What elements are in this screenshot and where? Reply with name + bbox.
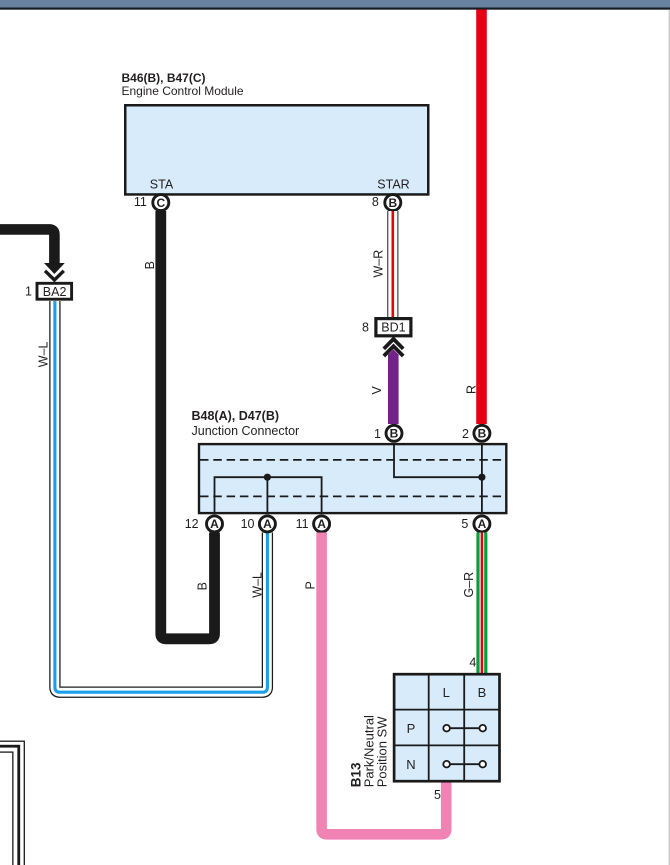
svg-text:C: C bbox=[156, 196, 165, 210]
junction pin 10 (A) bottom bbox=[259, 516, 275, 532]
svg-text:Junction Connector: Junction Connector bbox=[192, 424, 300, 438]
junction pin 1 (B) top bbox=[386, 425, 402, 441]
svg-text:B: B bbox=[196, 582, 210, 590]
N row contact bbox=[450, 763, 480, 765]
P row contact bbox=[450, 727, 480, 729]
svg-text:L: L bbox=[443, 685, 450, 700]
svg-text:B: B bbox=[143, 261, 157, 269]
junction connector box B48(A)/D47(B) bbox=[199, 444, 506, 513]
svg-text:A: A bbox=[210, 517, 219, 531]
ECM pin 8 (B) bbox=[385, 195, 401, 211]
junction pin 12 (A) bottom bbox=[207, 516, 223, 532]
wire V (violet) from chevrons down to junction pin 1B bbox=[388, 349, 399, 424]
chevron into BA2 bbox=[45, 271, 64, 280]
svg-text:B: B bbox=[390, 427, 399, 441]
internal bus right (pins 1B-2B-5A) bbox=[394, 445, 482, 513]
svg-text:B48(A), D47(B): B48(A), D47(B) bbox=[192, 409, 280, 423]
dashed separator upper bbox=[200, 459, 506, 461]
top header bar bbox=[0, 0, 670, 8]
svg-text:B: B bbox=[478, 685, 487, 700]
svg-text:11: 11 bbox=[296, 517, 309, 531]
partial connector box bottom-left (inner line) bbox=[0, 752, 13, 865]
svg-text:V: V bbox=[370, 386, 384, 395]
svg-text:P: P bbox=[407, 721, 416, 736]
svg-text:BD1: BD1 bbox=[381, 321, 405, 335]
switch grid vertical lines bbox=[429, 674, 465, 781]
svg-text:A: A bbox=[317, 517, 326, 531]
ECM pin 11 (C) bbox=[153, 195, 169, 211]
svg-text:1: 1 bbox=[25, 284, 32, 298]
continuation chevrons (pointing up at BD1) bbox=[384, 339, 403, 349]
partial connector box bottom-left (thick middle line) bbox=[0, 746, 19, 865]
svg-text:4: 4 bbox=[469, 656, 476, 670]
svg-text:B: B bbox=[388, 196, 397, 210]
svg-text:STA: STA bbox=[150, 178, 174, 192]
svg-text:W–L: W–L bbox=[37, 342, 51, 368]
wire W-R from ECM pin 8B down to BD1 bbox=[387, 211, 398, 318]
connector BD1 bbox=[376, 319, 411, 336]
svg-text:11: 11 bbox=[134, 195, 147, 209]
arrowhead into BA2 bbox=[44, 263, 65, 274]
wire B (thick black) from ECM pin C down, across, up to junction pin 12A bbox=[161, 211, 215, 639]
svg-text:W–R: W–R bbox=[372, 250, 386, 278]
svg-text:5: 5 bbox=[461, 517, 468, 531]
svg-text:STAR: STAR bbox=[377, 178, 409, 192]
wire P (pink) from junction pin 11A down, across, up into P/N switch bbox=[322, 533, 447, 835]
svg-text:P: P bbox=[303, 581, 317, 589]
switch grid horizontal lines bbox=[394, 710, 500, 746]
right page edge line bbox=[669, 10, 670, 865]
svg-text:5: 5 bbox=[434, 788, 441, 802]
junction pin 11 (A) bottom bbox=[314, 516, 330, 532]
svg-text:W–L: W–L bbox=[250, 572, 264, 598]
svg-text:Engine Control Module: Engine Control Module bbox=[122, 84, 244, 98]
svg-text:12: 12 bbox=[185, 517, 199, 531]
svg-text:Position SW: Position SW bbox=[375, 716, 390, 788]
junction pin 5 (A) bottom bbox=[474, 516, 490, 532]
svg-text:1: 1 bbox=[374, 427, 381, 441]
junction dot at 10A bus bbox=[264, 474, 271, 481]
svg-text:G–R: G–R bbox=[462, 572, 476, 598]
dashed separator lower bbox=[200, 495, 506, 497]
svg-text:A: A bbox=[263, 517, 272, 531]
svg-text:2: 2 bbox=[462, 427, 469, 441]
connector BA2 bbox=[37, 283, 72, 299]
svg-text:8: 8 bbox=[362, 321, 369, 335]
junction pin 2 (B) top bbox=[474, 425, 490, 441]
junction dot at 2B/5A bus bbox=[478, 474, 485, 481]
svg-text:N: N bbox=[406, 757, 415, 772]
partial connector box bottom-left (outer line) bbox=[0, 741, 24, 865]
Park/Neutral Position SW box B13 bbox=[394, 674, 499, 781]
svg-text:10: 10 bbox=[241, 517, 255, 531]
wire R (thick red battery feed), from top bar down to junction connector pin 2B bbox=[476, 10, 487, 425]
svg-text:B46(B), B47(C): B46(B), B47(C) bbox=[122, 71, 206, 85]
svg-text:BA2: BA2 bbox=[43, 285, 67, 299]
svg-text:8: 8 bbox=[372, 195, 379, 209]
ECM box (Engine Control Module) bbox=[125, 105, 428, 194]
svg-text:B: B bbox=[478, 427, 487, 441]
wire B feed entering from left edge, turning down into BA2 bbox=[0, 229, 54, 263]
svg-text:R: R bbox=[464, 385, 478, 394]
wire G-R from junction pin 5A down to P/N switch pin 4 bbox=[476, 533, 487, 675]
wire W-L from BA2 down, across, up to junction connector pin 10A bbox=[55, 301, 268, 692]
svg-text:A: A bbox=[478, 517, 487, 531]
internal bus left (pins 12A-10A-11A) bbox=[215, 477, 322, 513]
